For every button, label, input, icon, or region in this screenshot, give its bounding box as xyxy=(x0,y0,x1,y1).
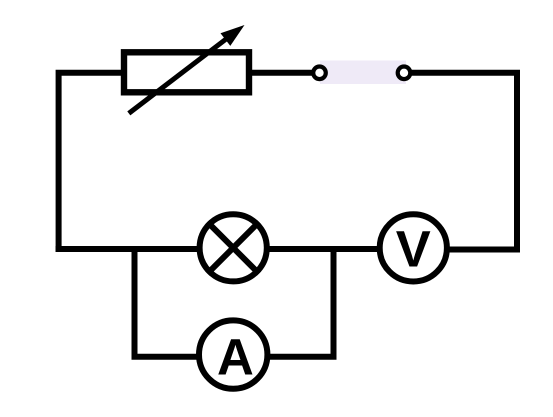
voltmeter V1 xyxy=(380,214,447,281)
lamp L1 xyxy=(200,214,267,281)
resistor R1 (variable resistor body) xyxy=(124,52,249,92)
resistor R1 adjustment arrow xyxy=(129,25,245,113)
wire: ammeter branch U (junction at lamp-left wire down, across, up to junction right of lamp) xyxy=(135,248,334,357)
ammeter A1 xyxy=(199,320,267,388)
wire: switch terminal 2 to right rail, down to voltmeter right xyxy=(411,73,517,250)
wire: top-left run (rheostat left to left rail, down to bottom rail) xyxy=(59,73,124,249)
svg-text:A: A xyxy=(217,329,254,386)
wire: rheostat right to switch terminal 1 xyxy=(249,70,312,76)
switch S1 terminal 1 xyxy=(313,67,326,80)
wire: main bottom horizontal rail (left rail to lamp to voltmeter) xyxy=(56,246,380,252)
svg-text:V: V xyxy=(396,221,431,278)
switch S1 terminal 2 xyxy=(398,67,411,80)
switch S1 highlight region xyxy=(320,61,406,85)
